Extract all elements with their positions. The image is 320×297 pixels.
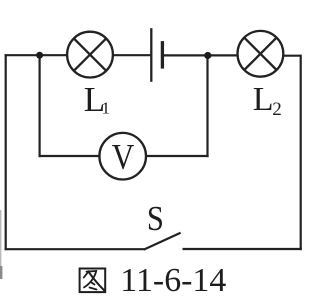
lamp L1 symbol bbox=[67, 32, 113, 78]
wire right vertical bbox=[300, 55, 302, 251]
wire bottom-left segment bbox=[5, 248, 145, 250]
wire top-left segment bbox=[5, 54, 68, 56]
lamp L2 symbol bbox=[238, 31, 284, 77]
wire voltmeter branch left vertical bbox=[38, 55, 40, 157]
svg-text:L: L bbox=[253, 81, 274, 118]
wire L1 to battery bbox=[113, 54, 151, 56]
node junction dot B (right) bbox=[204, 52, 211, 59]
wire battery to L2 bbox=[164, 54, 239, 56]
node junction dot A (left) bbox=[36, 52, 43, 59]
wire voltmeter branch lower-left horizontal bbox=[39, 155, 100, 157]
svg-text:1: 1 bbox=[102, 99, 111, 118]
wire left vertical bbox=[5, 54, 7, 250]
svg-text:V: V bbox=[112, 137, 135, 177]
wire bottom-right segment bbox=[183, 248, 302, 250]
svg-text:2: 2 bbox=[272, 99, 282, 120]
wire L2 to top-right corner bbox=[283, 55, 301, 57]
switch S blade bbox=[144, 233, 181, 250]
battery cell bbox=[151, 28, 162, 82]
scan artifact left edge bbox=[0, 210, 1, 278]
svg-text:11-6-14: 11-6-14 bbox=[120, 262, 226, 297]
voltmeter U1 circle bbox=[99, 133, 146, 180]
svg-text:S: S bbox=[147, 199, 164, 238]
wire voltmeter branch right vertical bbox=[206, 55, 208, 157]
wire voltmeter branch lower-right horizontal bbox=[146, 155, 209, 157]
caption hanzi TU (figure) drawn as strokes bbox=[80, 269, 106, 293]
